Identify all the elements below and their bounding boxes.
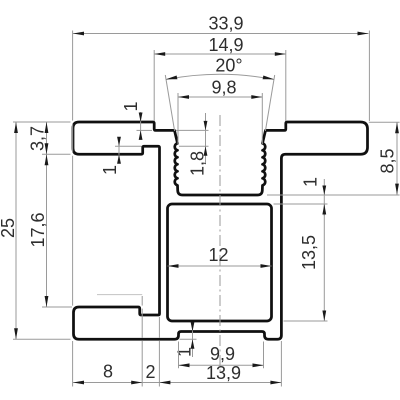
svg-text:1: 1 <box>121 101 141 111</box>
dimension 13,5 <box>274 204 328 321</box>
dimension 1,8 <box>176 113 209 164</box>
dimension 33,9 <box>73 31 370 306</box>
svg-text:12: 12 <box>208 245 228 265</box>
svg-text:14,9: 14,9 <box>208 35 243 55</box>
svg-text:17,6: 17,6 <box>28 212 48 247</box>
svg-text:1,8: 1,8 <box>188 151 208 176</box>
dimension 2 <box>159 381 170 385</box>
dimension 3,7 <box>42 122 71 307</box>
dimension 8 <box>73 381 84 385</box>
dimension 9,8 <box>178 93 262 144</box>
inner square cavity 12x13.5 <box>168 204 272 321</box>
dimension 12 <box>168 265 272 267</box>
dimension 25 <box>13 122 71 339</box>
centerline <box>219 115 221 374</box>
svg-text:1: 1 <box>100 165 120 175</box>
dimension 1 (top step) <box>137 112 153 138</box>
svg-text:13,5: 13,5 <box>299 235 319 270</box>
bottom chain dimension line 8 / 2 / 13,9 <box>73 295 282 387</box>
svg-text:9,8: 9,8 <box>211 78 236 98</box>
svg-text:2: 2 <box>145 362 155 382</box>
dimension 13,9 <box>270 381 281 385</box>
dimension 20 degrees <box>166 74 274 79</box>
svg-text:9,9: 9,9 <box>210 344 235 364</box>
dimension 17,6 <box>42 306 72 308</box>
svg-text:20°: 20° <box>215 56 242 76</box>
svg-text:3,7: 3,7 <box>28 126 48 151</box>
svg-text:1: 1 <box>175 347 195 357</box>
dimension 14,9 <box>154 50 286 121</box>
dimension 1 (left ledge) <box>115 137 142 163</box>
svg-text:1: 1 <box>301 177 321 187</box>
svg-text:8,5: 8,5 <box>378 148 398 173</box>
svg-text:13,9: 13,9 <box>206 363 241 383</box>
dimension 8,5 <box>369 122 400 194</box>
svg-text:33,9: 33,9 <box>208 14 243 34</box>
svg-text:25: 25 <box>0 218 18 238</box>
profile outline <box>73 122 368 339</box>
dimension 1 (bottom recess) <box>180 322 197 357</box>
svg-text:8: 8 <box>103 362 113 382</box>
dimension 1 (right wall) <box>267 179 400 216</box>
dimension 9,9 <box>179 342 264 369</box>
